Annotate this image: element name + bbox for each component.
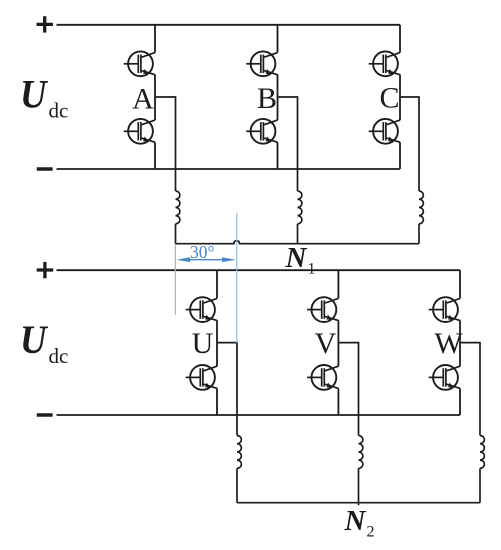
transistor V lower bbox=[307, 365, 339, 390]
wire phase V coil tail bbox=[358, 468, 360, 505]
wire phase U coil tail bbox=[236, 468, 238, 502]
svg-text:dc: dc bbox=[49, 98, 69, 122]
svg-text:U: U bbox=[20, 72, 48, 117]
wire phase W output bbox=[460, 343, 480, 436]
wire phase B coil tail bbox=[297, 224, 299, 244]
svg-text:2: 2 bbox=[367, 524, 375, 541]
wire phase C output bbox=[400, 97, 419, 191]
wire phase U output bbox=[217, 343, 237, 436]
wire phase C coil tail bbox=[418, 224, 420, 244]
wire phase B output bbox=[278, 97, 298, 191]
plus sign top source bbox=[37, 16, 54, 32]
wire leg C upper bbox=[399, 25, 401, 53]
wire leg B lower bbox=[277, 142, 279, 169]
wire leg A lower bbox=[154, 142, 156, 169]
label Udc top bbox=[20, 72, 68, 123]
inductor phase B bbox=[298, 191, 302, 224]
svg-text:N: N bbox=[344, 505, 367, 537]
svg-text:B: B bbox=[257, 82, 277, 115]
wire leg B upper bbox=[277, 25, 279, 53]
plus sign bottom source bbox=[37, 262, 54, 278]
wire leg A upper bbox=[154, 25, 156, 53]
svg-text:30°: 30° bbox=[190, 242, 215, 262]
wire leg W middle bbox=[459, 320, 461, 366]
inductor phase U bbox=[237, 436, 241, 469]
wire leg U middle bbox=[216, 320, 218, 366]
transistor W lower bbox=[429, 365, 461, 390]
wire leg C lower bbox=[399, 142, 401, 169]
minus sign bottom source bbox=[37, 413, 53, 417]
transistor B lower bbox=[246, 119, 278, 144]
minus sign top source bbox=[37, 167, 53, 171]
wire leg W upper bbox=[459, 270, 461, 298]
wire phase A output bbox=[155, 97, 176, 191]
wire leg U upper bbox=[216, 270, 218, 298]
svg-text:A: A bbox=[132, 83, 154, 116]
svg-text:N: N bbox=[285, 242, 308, 274]
wire leg B middle bbox=[277, 75, 279, 121]
wire phase A coil tail bbox=[175, 224, 177, 244]
wire phase W coil tail bbox=[479, 468, 481, 502]
transistor C lower bbox=[369, 119, 401, 144]
svg-text:1: 1 bbox=[308, 261, 316, 278]
wire top negative rail bbox=[57, 168, 401, 170]
transistor B upper bbox=[246, 51, 278, 76]
inductor phase V bbox=[359, 436, 363, 469]
svg-text:U: U bbox=[20, 317, 48, 362]
wire leg V upper bbox=[337, 270, 339, 298]
transistor U lower bbox=[186, 365, 218, 390]
wire leg V lower bbox=[337, 389, 339, 416]
label node N2 bbox=[344, 505, 375, 541]
wire leg U lower bbox=[216, 389, 218, 416]
wire phase V output bbox=[338, 343, 358, 436]
wire bottom positive rail bbox=[57, 269, 461, 271]
inductor phase W bbox=[480, 436, 484, 469]
svg-text:U: U bbox=[192, 327, 214, 360]
annotation blue guide line right bbox=[236, 213, 238, 343]
transistor A lower bbox=[124, 119, 156, 144]
label node N1 bbox=[285, 242, 316, 278]
wire neutral bus N1 with hop bbox=[176, 241, 420, 244]
transistor U upper bbox=[186, 297, 218, 322]
transistor C upper bbox=[369, 51, 401, 76]
annotation blue guide line left bbox=[174, 244, 176, 315]
svg-text:W: W bbox=[434, 327, 463, 360]
wire bottom negative rail bbox=[57, 414, 461, 416]
transistor V upper bbox=[307, 297, 339, 322]
inductor phase A bbox=[176, 191, 180, 224]
svg-text:dc: dc bbox=[49, 344, 69, 368]
wire leg W lower bbox=[459, 389, 461, 416]
label Udc bottom bbox=[20, 317, 68, 368]
transistor W upper bbox=[429, 297, 461, 322]
wire top positive rail bbox=[57, 24, 401, 26]
wire leg C middle bbox=[399, 75, 401, 121]
svg-text:V: V bbox=[315, 327, 337, 360]
svg-text:C: C bbox=[379, 82, 399, 115]
inductor phase C bbox=[419, 191, 423, 224]
annotation 30 degree arrow bbox=[176, 257, 235, 262]
transistor A upper bbox=[124, 51, 156, 76]
wire neutral bus N2 bbox=[237, 502, 480, 504]
wire leg A middle bbox=[154, 75, 156, 121]
wire leg V middle bbox=[337, 320, 339, 366]
